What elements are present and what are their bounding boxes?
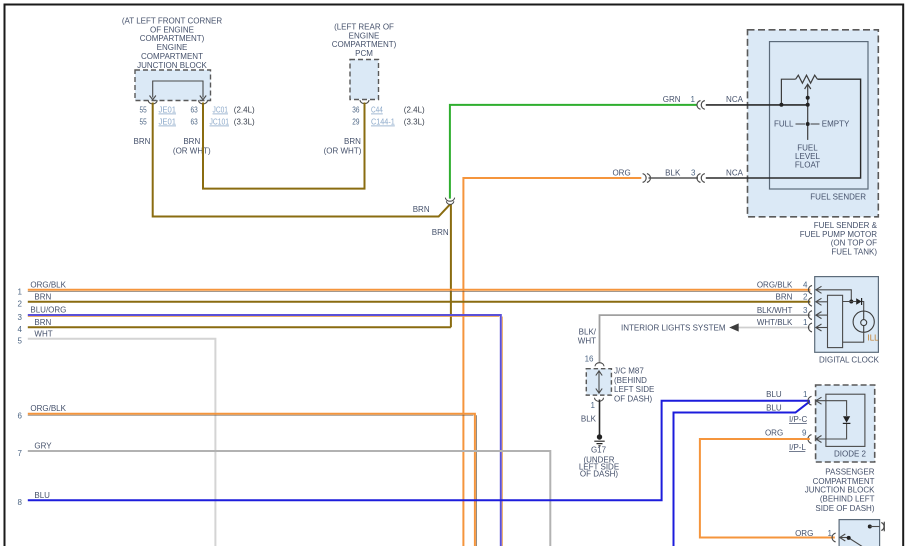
diode (clock) <box>856 298 861 304</box>
wiper arm with arrow <box>805 84 811 140</box>
svg-text:JC101: JC101 <box>210 118 230 127</box>
svg-text:NCA: NCA <box>726 95 744 104</box>
diode 2 internal path <box>816 397 847 442</box>
svg-text:1: 1 <box>591 401 596 410</box>
clock pin 2 connector <box>808 297 812 306</box>
clock pin 4 internal wire <box>816 286 852 301</box>
svg-text:BRN: BRN <box>413 205 430 214</box>
svg-text:9: 9 <box>802 428 807 437</box>
diode symbol <box>843 416 850 423</box>
svg-text:4: 4 <box>18 325 23 334</box>
svg-text:1: 1 <box>828 529 833 538</box>
svg-text:BRN: BRN <box>34 318 51 327</box>
clock pin 3 connector <box>808 311 812 320</box>
svg-text:BLU: BLU <box>34 491 50 500</box>
svg-text:2: 2 <box>18 300 23 309</box>
svg-text:(OR WHT): (OR WHT) <box>173 147 211 156</box>
svg-text:ORG: ORG <box>795 529 813 538</box>
clock wire labels <box>757 281 793 328</box>
PCM box <box>350 60 379 100</box>
svg-text:55: 55 <box>140 118 148 127</box>
svg-text:63: 63 <box>191 106 199 115</box>
svg-text:3: 3 <box>18 313 23 322</box>
inline connector (( at fuel sender pin 3 <box>697 174 705 183</box>
bottom switch pivot dot <box>847 536 851 540</box>
wire 4 BRN <box>28 326 451 328</box>
svg-text:JUNCTION BLOCK: JUNCTION BLOCK <box>137 61 207 70</box>
PCM pin labels <box>352 106 425 127</box>
svg-text:G17: G17 <box>591 446 607 455</box>
svg-text:GRN: GRN <box>663 95 681 104</box>
junction dot NCA at resistor loop <box>779 103 783 107</box>
wire WHT/BLK from clock pin 1 <box>739 327 811 329</box>
J/C M87 internal arrows <box>596 371 602 393</box>
junction block pin 55 connector <box>148 100 157 104</box>
wire BLK/WHT to clock pin 3 <box>600 315 811 362</box>
svg-text:C44: C44 <box>371 106 383 115</box>
svg-text:EMPTY: EMPTY <box>822 120 850 129</box>
wire 3 BLU/ORG <box>28 315 501 546</box>
svg-text:OF ENGINE: OF ENGINE <box>150 25 194 34</box>
svg-text:FUEL PUMP MOTOR: FUEL PUMP MOTOR <box>800 230 877 239</box>
svg-text:55: 55 <box>140 106 148 115</box>
lamp return line <box>843 332 864 342</box>
clock pin 1 internal wire <box>816 324 828 331</box>
svg-text:BRN: BRN <box>134 137 151 146</box>
svg-text:(3.3L): (3.3L) <box>234 118 255 127</box>
clock pin 1 connector <box>808 323 812 332</box>
bottom switch internal arrow <box>840 534 864 546</box>
junction block box <box>135 70 211 101</box>
svg-text:I/P-L: I/P-L <box>789 443 806 452</box>
clock pin 4 connector <box>808 285 812 294</box>
svg-text:ORG/BLK: ORG/BLK <box>30 280 66 289</box>
svg-text:29: 29 <box>352 118 360 127</box>
wire ORG from fuel pump splice <box>463 178 641 546</box>
svg-text:ILL: ILL <box>868 333 880 342</box>
svg-text:BLU: BLU <box>766 403 782 412</box>
svg-text:(OR WHT): (OR WHT) <box>324 147 362 156</box>
wire 1 ORG/BLK <box>28 289 811 291</box>
svg-text:(2.4L): (2.4L) <box>234 106 255 115</box>
junction dot clock <box>849 300 853 304</box>
junction dot wiper at NCA feed <box>806 103 810 107</box>
junction block internal bus <box>150 81 207 100</box>
svg-text:FUEL TANK): FUEL TANK) <box>831 247 877 256</box>
PCM pin connector <box>360 100 369 104</box>
svg-text:FUEL SENDER: FUEL SENDER <box>810 193 866 202</box>
PCM caption <box>332 23 397 59</box>
wire 6 ORG/BLK <box>28 414 475 546</box>
diode 2 inner box <box>826 394 865 446</box>
svg-text:(2.4L): (2.4L) <box>404 106 425 115</box>
wire NCA to pin 1 <box>706 104 808 106</box>
svg-text:I/P-C: I/P-C <box>789 415 807 424</box>
svg-text:FULL: FULL <box>774 120 794 129</box>
junction block pin labels <box>140 106 256 127</box>
caption PASSENGER COMPARTMENT JUNCTION BLOCK <box>805 468 875 513</box>
svg-text:5: 5 <box>18 337 23 346</box>
svg-text:ORG/BLK: ORG/BLK <box>30 404 66 413</box>
svg-text:1: 1 <box>803 318 808 327</box>
svg-text:GRY: GRY <box>34 442 52 451</box>
svg-text:ORG: ORG <box>612 168 630 177</box>
wire 2 BRN <box>28 301 811 303</box>
junction dot wiper upper <box>806 96 810 100</box>
bottom switch top contact <box>868 525 872 529</box>
wire GRN <box>450 105 697 199</box>
svg-text:4: 4 <box>803 281 808 290</box>
wire BRN from junction block pin 55 <box>153 103 450 217</box>
resistor (fuel sender) <box>796 75 818 83</box>
svg-text:BRN: BRN <box>34 292 51 301</box>
svg-text:JC01: JC01 <box>213 106 229 115</box>
caption FUEL SENDER & FUEL PUMP MOTOR <box>800 221 878 256</box>
svg-text:(BEHIND LEFT: (BEHIND LEFT <box>820 495 875 504</box>
diode 2 pin 1 connector <box>808 396 812 405</box>
svg-text:3: 3 <box>803 306 808 315</box>
svg-text:BLK: BLK <box>665 168 681 177</box>
svg-text:(3.3L): (3.3L) <box>404 118 425 127</box>
svg-text:COMPARTMENT): COMPARTMENT) <box>140 34 205 43</box>
svg-text:(ON TOP OF: (ON TOP OF <box>831 239 877 248</box>
J/C M87 dashed box <box>586 369 611 395</box>
svg-text:BLK: BLK <box>581 414 597 423</box>
J/C M87 top connector <box>595 363 604 367</box>
svg-text:INTERIOR LIGHTS SYSTEM: INTERIOR LIGHTS SYSTEM <box>621 323 726 332</box>
svg-text:FUEL SENDER &: FUEL SENDER & <box>814 221 878 230</box>
svg-text:7: 7 <box>18 449 23 458</box>
svg-text:ENGINE: ENGINE <box>349 31 380 40</box>
svg-text:COMPARTMENT: COMPARTMENT <box>141 52 203 61</box>
svg-text:6: 6 <box>18 412 23 421</box>
wire 7 GRY <box>28 451 551 546</box>
svg-text:1: 1 <box>803 390 808 399</box>
diode 2 pin 9 connector <box>808 435 812 444</box>
lamp ILL <box>853 311 874 332</box>
svg-text:JE01: JE01 <box>159 106 177 115</box>
svg-text:8: 8 <box>18 498 23 507</box>
label FUEL LEVEL FLOAT <box>795 143 821 169</box>
clock pin 2 internal wire <box>816 298 828 305</box>
svg-text:63: 63 <box>191 118 199 127</box>
wire BRN vertical down to wire 4 <box>450 205 452 328</box>
bottom switch pin 1 connector <box>832 533 836 542</box>
wire BRN (OR WHT) junction block pin 63 to PCM <box>203 103 365 189</box>
clock pin 3 internal wire <box>816 312 828 319</box>
svg-text:BLU: BLU <box>766 390 782 399</box>
ground G17 <box>597 434 602 439</box>
svg-text:DIODE 2: DIODE 2 <box>834 450 867 459</box>
svg-text:PCM: PCM <box>355 49 373 58</box>
svg-text:J/C M87: J/C M87 <box>614 366 644 375</box>
wire NCA pin 3 to resistor (bottom/right path) <box>706 79 861 178</box>
svg-text:BRN: BRN <box>344 137 361 146</box>
svg-text:BRN: BRN <box>432 228 449 237</box>
FULL / EMPTY ticks <box>796 123 820 125</box>
svg-text:PASSENGER: PASSENGER <box>825 468 874 477</box>
clock illumination feed line <box>843 302 864 312</box>
wire BLU diode loop <box>674 401 810 546</box>
svg-text:WHT: WHT <box>578 337 596 346</box>
arrow to interior lights system <box>729 323 739 331</box>
svg-text:SIDE OF DASH): SIDE OF DASH) <box>815 504 874 513</box>
wire 5 WHT <box>28 339 216 546</box>
svg-text:OF DASH): OF DASH) <box>614 395 653 404</box>
svg-text:ENGINE: ENGINE <box>157 43 188 52</box>
J/C M87 bottom connector <box>595 398 604 402</box>
clock inner module <box>828 295 843 347</box>
svg-text:2: 2 <box>803 293 808 302</box>
diode 2 dashed box <box>816 385 875 462</box>
svg-text:OF DASH): OF DASH) <box>580 470 619 479</box>
inline connector (( at fuel sender pin 1 <box>697 101 705 110</box>
label J/C M87 side text <box>614 366 654 403</box>
svg-text:1: 1 <box>18 288 23 297</box>
svg-text:JUNCTION BLOCK: JUNCTION BLOCK <box>805 486 875 495</box>
splice connector at green/brown merge <box>445 198 454 205</box>
svg-text:WHT/BLK: WHT/BLK <box>757 318 793 327</box>
svg-text:(LEFT REAR OF: (LEFT REAR OF <box>334 23 394 32</box>
svg-text:BLU/ORG: BLU/ORG <box>30 306 66 315</box>
svg-text:WHT: WHT <box>34 329 52 338</box>
svg-text:ORG/BLK: ORG/BLK <box>757 281 793 290</box>
clock pin numbers <box>803 281 808 328</box>
svg-text:36: 36 <box>352 106 360 115</box>
wire BLK segment <box>649 177 699 179</box>
svg-text:LEFT SIDE: LEFT SIDE <box>614 385 654 394</box>
svg-text:NCA: NCA <box>726 168 744 177</box>
svg-text:JE01: JE01 <box>159 118 177 127</box>
resistor left lead loop <box>781 79 795 105</box>
svg-text:1: 1 <box>691 95 696 104</box>
junction dot wiper at FULL/EMPTY <box>806 122 810 126</box>
svg-text:BLK/WHT: BLK/WHT <box>757 306 793 315</box>
svg-text:16: 16 <box>585 354 594 363</box>
svg-text:BRN: BRN <box>183 137 200 146</box>
svg-text:FLOAT: FLOAT <box>795 160 820 169</box>
fuel sender outer dashed box <box>748 30 879 217</box>
svg-text:C144-1: C144-1 <box>371 118 395 127</box>
wire 8 BLU <box>28 401 810 501</box>
digital clock box <box>815 277 879 353</box>
wire ORG to diode pin 9 <box>700 439 835 538</box>
svg-text:3: 3 <box>691 168 696 177</box>
engine compartment junction block caption <box>122 17 223 71</box>
splice )) <box>643 174 651 183</box>
svg-text:(BEHIND: (BEHIND <box>614 376 647 385</box>
bottom switch box <box>839 520 880 546</box>
wire BLK to ground <box>599 400 601 435</box>
svg-text:BLK/: BLK/ <box>579 327 597 336</box>
svg-text:BRN: BRN <box>776 293 793 302</box>
svg-text:ORG: ORG <box>765 428 783 437</box>
svg-text:DIGITAL CLOCK: DIGITAL CLOCK <box>819 355 880 364</box>
junction block pin 63 connector <box>199 100 208 104</box>
svg-text:(AT LEFT FRONT CORNER: (AT LEFT FRONT CORNER <box>122 17 223 26</box>
svg-text:COMPARTMENT): COMPARTMENT) <box>332 40 397 49</box>
label (UNDER LEFT SIDE OF DASH) <box>579 455 619 478</box>
fuel sender solid box <box>770 42 869 189</box>
